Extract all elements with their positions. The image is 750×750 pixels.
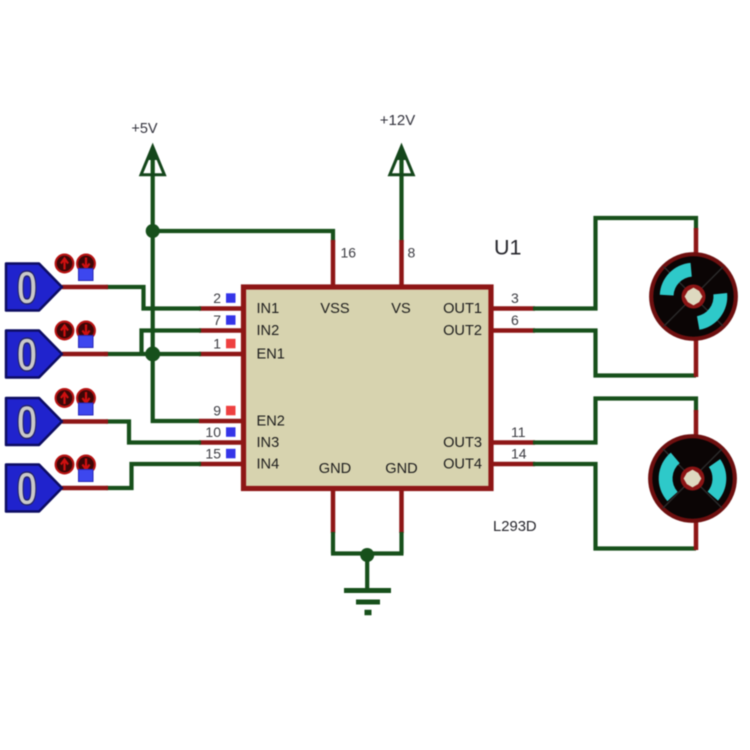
svg-text:IN1: IN1 [257,301,280,317]
svg-text:0: 0 [17,463,38,515]
svg-text:VS: VS [391,301,411,317]
svg-text:GND: GND [385,461,417,477]
svg-text:OUT4: OUT4 [443,457,482,473]
svg-text:11: 11 [511,424,526,440]
svg-text:EN2: EN2 [257,414,285,430]
svg-text:OUT3: OUT3 [443,435,482,451]
svg-text:14: 14 [511,446,527,462]
svg-text:0: 0 [17,262,38,314]
svg-text:1: 1 [213,336,221,352]
svg-text:0: 0 [17,396,38,448]
svg-text:6: 6 [511,312,519,328]
svg-text:2: 2 [213,290,221,306]
svg-text:+12V: +12V [380,112,415,129]
svg-text:0: 0 [17,329,38,381]
svg-text:IN2: IN2 [257,323,280,339]
svg-text:7: 7 [213,312,221,328]
svg-text:L293D: L293D [493,519,537,535]
svg-text:EN1: EN1 [257,347,285,363]
svg-text:8: 8 [408,245,416,261]
svg-text:IN3: IN3 [257,435,280,451]
svg-text:3: 3 [511,290,519,306]
svg-text:IN4: IN4 [257,457,280,473]
svg-text:16: 16 [341,245,357,261]
svg-text:9: 9 [213,403,221,419]
svg-text:VSS: VSS [320,301,349,317]
svg-text:OUT2: OUT2 [443,323,482,339]
svg-text:15: 15 [205,446,221,462]
svg-text:OUT1: OUT1 [443,301,482,317]
svg-text:+5V: +5V [131,121,158,137]
svg-text:GND: GND [319,461,351,477]
svg-text:10: 10 [205,424,221,440]
svg-text:U1: U1 [494,236,521,260]
